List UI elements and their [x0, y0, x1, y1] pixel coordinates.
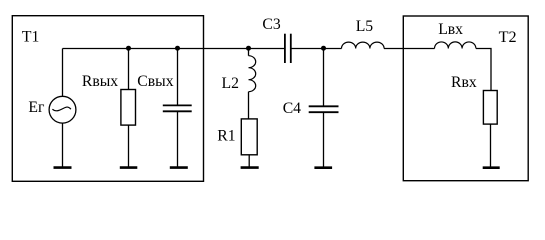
generator Eg: [49, 49, 76, 168]
node: junction Svyh on top rail: [175, 46, 180, 51]
wire: top rail from Eg to C3 left plate: [63, 48, 285, 50]
svg-text:T1: T1: [22, 29, 39, 46]
svg-text:L5: L5: [356, 18, 374, 35]
resistor R1: [241, 119, 257, 167]
resistor Rvx: [483, 91, 497, 168]
svg-text:Ег: Ег: [28, 99, 45, 116]
ground (Svyh): [170, 166, 188, 169]
svg-text:Свых: Свых: [137, 73, 173, 90]
node: junction L2 branch on top rail: [246, 46, 251, 51]
two-port box T2: [403, 16, 528, 181]
svg-text:Rвых: Rвых: [82, 73, 118, 90]
ground (Rvyh): [120, 166, 138, 169]
svg-text:C4: C4: [283, 100, 301, 117]
wire: Lvx to corner above Rvx: [476, 49, 491, 91]
node: junction Rvyh on top rail: [126, 46, 131, 51]
ground (Rvx): [483, 166, 500, 169]
svg-text:Lвх: Lвх: [438, 21, 463, 38]
ground (C4): [314, 166, 332, 169]
wire: C3 right plate to L5: [291, 48, 342, 50]
svg-text:R1: R1: [217, 128, 235, 145]
capacitor C3: [285, 34, 291, 63]
svg-text:C3: C3: [262, 16, 280, 33]
capacitor Svyh: [163, 49, 192, 168]
wire: L5 to Lvx: [384, 48, 435, 50]
resistor Rvyh: [121, 49, 136, 168]
inductor Lvx: [435, 42, 476, 49]
svg-text:T2: T2: [499, 28, 517, 46]
inductor L2: [249, 49, 256, 119]
capacitor C4: [309, 49, 339, 168]
ground (Eg): [54, 166, 72, 169]
svg-text:Rвх: Rвх: [451, 74, 477, 91]
inductor L5: [342, 42, 385, 48]
node: junction C4 branch on top rail: [321, 46, 326, 51]
two-port box T1: [12, 16, 203, 182]
svg-text:L2: L2: [222, 75, 239, 92]
ground (R1): [241, 166, 259, 169]
